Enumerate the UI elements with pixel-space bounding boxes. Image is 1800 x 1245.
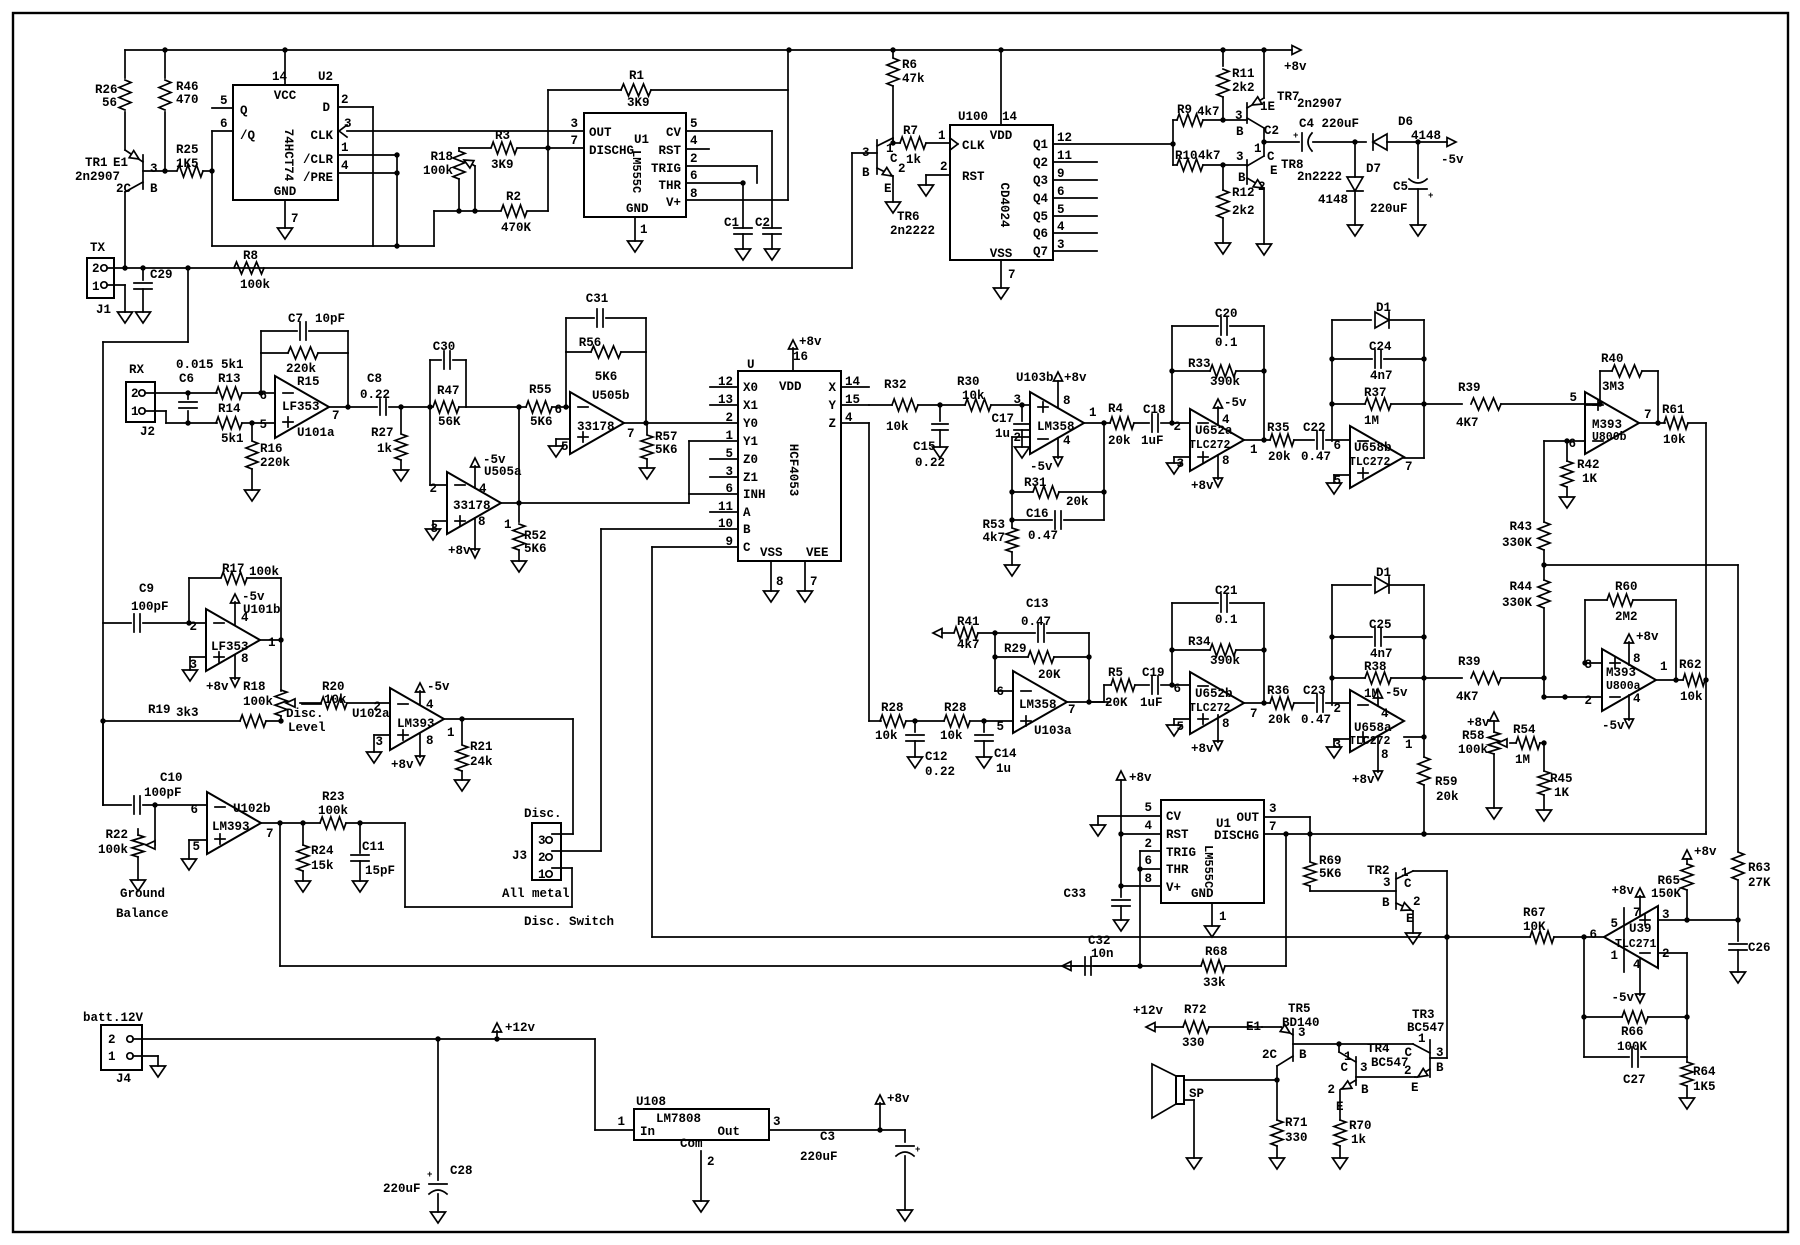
wire U658a pin3 ground — [1334, 738, 1350, 740]
svg-text:330: 330 — [1285, 1131, 1308, 1145]
svg-text:10K: 10K — [1523, 920, 1546, 934]
op-amp U505a 33178 — [447, 472, 501, 534]
op-amp U652a TLC272 — [1190, 409, 1244, 471]
svg-text:2C: 2C — [116, 182, 132, 196]
resistor R10 — [1173, 164, 1177, 166]
resistor R30 10k — [940, 404, 965, 406]
svg-text:R17: R17 — [222, 562, 245, 576]
resistor R12 — [1222, 165, 1224, 190]
wire U101b pin3 ground — [190, 656, 206, 658]
svg-text:7: 7 — [1633, 906, 1641, 920]
svg-text:7: 7 — [1068, 703, 1076, 717]
svg-text:4n7: 4n7 — [1370, 647, 1393, 661]
resistor R2 — [434, 210, 500, 212]
svg-text:7: 7 — [332, 409, 340, 423]
svg-text:5K6: 5K6 — [655, 443, 678, 457]
svg-text:R26: R26 — [95, 83, 118, 97]
IC U1 LM555C second timer — [1161, 800, 1264, 903]
svg-text:R22: R22 — [105, 828, 128, 842]
resistor R44 330K — [1543, 565, 1545, 580]
wire U102b pin5 ground — [189, 839, 207, 841]
svg-text:10k: 10k — [875, 729, 898, 743]
svg-text:Disc. Switch: Disc. Switch — [524, 915, 614, 929]
svg-text:LM358: LM358 — [1019, 698, 1057, 712]
ground C14 — [977, 757, 992, 768]
svg-text:V+: V+ — [1166, 881, 1181, 895]
svg-text:D1: D1 — [1376, 301, 1391, 315]
resistor R24 15k — [302, 823, 304, 845]
resistor R8 — [234, 262, 264, 274]
svg-text:1k: 1k — [377, 442, 393, 456]
svg-text:R42: R42 — [1577, 458, 1600, 472]
wire U1 pin1 GND — [634, 217, 636, 241]
resistor R25 — [165, 170, 176, 172]
svg-text:J3: J3 — [512, 849, 527, 863]
wire U108 Out to +8v — [769, 1129, 905, 1131]
svg-text:1K: 1K — [1582, 472, 1598, 486]
svg-text:7: 7 — [291, 212, 299, 226]
svg-text:R27: R27 — [371, 426, 394, 440]
wire R8 to TR6 base — [851, 153, 853, 268]
capacitor C26 — [1737, 920, 1739, 941]
svg-text:+12v: +12v — [1133, 1004, 1164, 1018]
svg-text:1: 1 — [92, 280, 100, 294]
svg-text:6: 6 — [725, 482, 733, 496]
svg-text:2: 2 — [1144, 837, 1152, 851]
svg-text:9: 9 — [1057, 167, 1065, 181]
svg-text:8: 8 — [478, 515, 486, 529]
svg-text:VCC: VCC — [274, 89, 297, 103]
svg-text:C: C — [1404, 1046, 1412, 1060]
svg-text:Q2: Q2 — [1033, 156, 1048, 170]
svg-text:8: 8 — [1063, 394, 1071, 408]
svg-text:Q6: Q6 — [1033, 227, 1048, 241]
svg-text:R28: R28 — [944, 701, 967, 715]
resistor R36 20k — [1270, 697, 1294, 709]
svg-text:TR5: TR5 — [1288, 1002, 1311, 1016]
IC U100 CD4024 — [950, 125, 1053, 260]
capacitor C33 — [1112, 899, 1130, 901]
svg-text:2: 2 — [1013, 431, 1021, 445]
transistor TR3 BC547 — [1429, 1040, 1431, 1077]
wire U101a in+ — [252, 422, 275, 424]
svg-text:+8v: +8v — [391, 758, 414, 772]
svg-text:3: 3 — [375, 735, 383, 749]
svg-text:1K5: 1K5 — [176, 157, 199, 171]
resistor R14 — [216, 417, 242, 429]
wire U102a output to J3 pin3 — [444, 718, 462, 720]
capacitor C22 0.47 — [1316, 431, 1318, 449]
wire U2 pin6 /Q loop to R25 and D — [212, 130, 233, 132]
svg-text:4: 4 — [426, 698, 434, 712]
resistor R68 33k — [280, 965, 1201, 967]
capacitor C16 0.47 — [1012, 519, 1052, 521]
svg-text:J2: J2 — [140, 425, 155, 439]
svg-text:R39: R39 — [1458, 381, 1481, 395]
wire TX pin2 line — [107, 267, 263, 269]
wire U800a pin2 — [1544, 696, 1602, 698]
resistor R65 150K — [1683, 850, 1692, 859]
svg-text:6: 6 — [1333, 439, 1341, 453]
capacitor C10 100pF — [102, 721, 104, 805]
wire R61 to right column — [1705, 423, 1707, 832]
wire U101a output — [329, 406, 348, 408]
svg-text:1: 1 — [725, 429, 733, 443]
capacitor C21 0.1 loop — [1171, 603, 1173, 685]
svg-text:C: C — [743, 541, 751, 555]
wire U103b output — [1084, 422, 1110, 424]
svg-text:7: 7 — [1269, 820, 1277, 834]
svg-text:100k: 100k — [249, 565, 280, 579]
wire +12v rail — [133, 1038, 595, 1040]
svg-text:11: 11 — [1057, 149, 1072, 163]
svg-text:4148: 4148 — [1411, 129, 1441, 143]
svg-text:R47: R47 — [437, 384, 460, 398]
svg-text:-5v: -5v — [1611, 991, 1634, 1005]
capacitor C20 0.1 loop — [1171, 326, 1173, 423]
capacitor C7 10pF — [260, 331, 262, 353]
svg-text:4: 4 — [1144, 819, 1152, 833]
wire U108 Com pin2 — [700, 1151, 702, 1201]
svg-text:8: 8 — [1381, 748, 1389, 762]
IC U1 LM555C timer — [584, 113, 686, 217]
svg-text:TRIG: TRIG — [651, 162, 681, 176]
svg-text:R38: R38 — [1364, 660, 1387, 674]
resistor R46 — [164, 50, 166, 78]
svg-text:-5v: -5v — [483, 453, 506, 467]
svg-text:R40: R40 — [1601, 352, 1624, 366]
svg-text:+8v: +8v — [1694, 845, 1717, 859]
svg-text:E1: E1 — [113, 156, 128, 170]
svg-text:Y1: Y1 — [743, 435, 758, 449]
op-amp U102b LM393 — [207, 792, 261, 854]
svg-text:R68: R68 — [1205, 945, 1228, 959]
svg-text:R56: R56 — [579, 336, 602, 350]
power +8v U101b pin8 — [234, 655, 236, 679]
svg-text:0.47: 0.47 — [1021, 615, 1051, 629]
wire U2 /PRE pin4 — [338, 172, 397, 174]
svg-text:C9: C9 — [139, 582, 154, 596]
svg-text:U505b: U505b — [592, 389, 630, 403]
ground R12 — [1216, 243, 1231, 254]
svg-text:47k: 47k — [902, 72, 925, 86]
connector J2 RX — [126, 382, 155, 422]
svg-text:R13: R13 — [218, 372, 241, 386]
svg-text:100k: 100k — [1458, 743, 1489, 757]
ground R53 — [1005, 565, 1020, 576]
capacitor C25 4n7 — [1332, 636, 1372, 638]
svg-text:C2: C2 — [1264, 124, 1279, 138]
svg-text:C28: C28 — [450, 1164, 473, 1178]
svg-text:3: 3 — [773, 1115, 781, 1129]
resistor R40 3M3 feedback — [1599, 371, 1601, 405]
capacitor C3 220uF polarized — [904, 1130, 906, 1142]
svg-text:+8v: +8v — [448, 544, 471, 558]
svg-text:C29: C29 — [150, 268, 173, 282]
svg-text:+: + — [1293, 131, 1298, 141]
wire U102b output row — [261, 822, 320, 824]
transistor TR7 2n2907 — [1246, 103, 1248, 123]
svg-text:2n2907: 2n2907 — [1297, 97, 1342, 111]
svg-text:15pF: 15pF — [365, 864, 395, 878]
capacitor C23 0.47 — [1316, 694, 1318, 712]
capacitor C31 — [565, 318, 567, 352]
svg-text:R19: R19 — [148, 703, 171, 717]
svg-text:U102a: U102a — [352, 707, 390, 721]
svg-text:330K: 330K — [1502, 536, 1533, 550]
svg-text:56: 56 — [102, 96, 117, 110]
svg-text:1K5: 1K5 — [1693, 1080, 1716, 1094]
power -5v U505a pin4 — [474, 466, 476, 488]
svg-text:/CLR: /CLR — [303, 153, 334, 167]
svg-text:U101a: U101a — [297, 426, 335, 440]
svg-text:20k: 20k — [1108, 434, 1131, 448]
svg-text:R58: R58 — [1462, 729, 1485, 743]
wire U505b output — [624, 422, 646, 424]
svg-text:2: 2 — [1327, 1083, 1335, 1097]
svg-text:J1: J1 — [96, 303, 111, 317]
wire 555b V+ pin8 — [1121, 885, 1161, 887]
svg-text:U1: U1 — [634, 133, 649, 147]
svg-text:R24: R24 — [311, 844, 334, 858]
svg-text:TR1: TR1 — [85, 156, 108, 170]
wire U1 DISCHG to R3/R2 node — [548, 147, 584, 149]
resistor R26 — [124, 50, 126, 78]
svg-text:100k: 100k — [423, 164, 454, 178]
svg-text:1: 1 — [1089, 406, 1097, 420]
capacitor C11 15pF — [359, 823, 361, 853]
svg-text:CV: CV — [1166, 810, 1182, 824]
capacitor C9 100pF — [103, 622, 131, 624]
svg-text:2: 2 — [940, 160, 948, 174]
capacitor C8 0.22 — [348, 406, 377, 408]
power +8v U652b pin8 — [1217, 715, 1219, 742]
svg-text:DISCHG: DISCHG — [589, 144, 634, 158]
power +8v U102a pin8 — [419, 734, 421, 757]
op-amp U39 TLC271 pointing left — [1604, 906, 1658, 968]
svg-text:C10: C10 — [160, 771, 183, 785]
svg-text:R32: R32 — [884, 378, 907, 392]
svg-text:C17: C17 — [991, 412, 1014, 426]
wire U505a output row — [501, 502, 689, 504]
resistor R4 20k — [1110, 417, 1134, 429]
resistor R16 — [251, 423, 253, 440]
svg-text:E1: E1 — [1246, 1020, 1261, 1034]
wire DISCHG down to R68 row — [1285, 834, 1287, 966]
wire -5v arrow — [1418, 141, 1447, 143]
ground J4 pin1 — [151, 1066, 166, 1077]
wire U100 CLK wedge — [950, 138, 958, 144]
svg-text:4k7: 4k7 — [957, 638, 980, 652]
svg-text:10k: 10k — [940, 729, 963, 743]
svg-text:24k: 24k — [470, 755, 493, 769]
svg-text:R46: R46 — [176, 80, 199, 94]
svg-text:Com: Com — [680, 1137, 703, 1151]
wire U100 RST pin2 — [926, 174, 950, 176]
svg-text:1uF: 1uF — [1141, 434, 1164, 448]
ground C12 — [908, 757, 923, 768]
wire U39 offset bar pins 5 1 — [1623, 908, 1625, 972]
ground speaker — [1187, 1158, 1202, 1169]
resistor R59 20k — [1423, 737, 1425, 757]
wire U800b output — [1639, 422, 1665, 424]
svg-text:R12: R12 — [1232, 186, 1255, 200]
svg-text:B: B — [743, 523, 751, 537]
svg-text:1: 1 — [1254, 142, 1262, 156]
wire DISCHG node long line — [1264, 833, 1706, 835]
svg-text:VSS: VSS — [760, 546, 783, 560]
svg-text:batt.12V: batt.12V — [83, 1011, 144, 1025]
svg-text:RX: RX — [129, 363, 145, 377]
ground 4053 VSS — [764, 591, 779, 602]
ground C1 — [736, 249, 751, 260]
transistor TR2 — [1395, 873, 1397, 909]
svg-text:R18: R18 — [430, 150, 453, 164]
svg-text:0.22: 0.22 — [360, 388, 390, 402]
power +8v rail at 555b — [1117, 771, 1126, 780]
svg-text:R31: R31 — [1024, 476, 1047, 490]
svg-text:2: 2 — [131, 387, 139, 401]
svg-text:8: 8 — [1222, 454, 1230, 468]
wire U103a output — [1066, 701, 1110, 703]
ground U100 RST — [919, 185, 934, 196]
ground C5 — [1411, 225, 1426, 236]
svg-text:C22: C22 — [1303, 421, 1326, 435]
svg-text:3: 3 — [344, 117, 352, 131]
svg-text:CLK: CLK — [310, 129, 333, 143]
svg-text:LM7808: LM7808 — [656, 1112, 701, 1126]
resistor R20 10k — [302, 703, 321, 705]
wire U39 pin2 row — [1658, 952, 1687, 954]
svg-text:CV: CV — [666, 126, 682, 140]
svg-text:C13: C13 — [1026, 597, 1049, 611]
ground R27 — [394, 470, 409, 481]
svg-text:5K6: 5K6 — [530, 415, 553, 429]
svg-text:J4: J4 — [116, 1072, 132, 1086]
svg-text:R63: R63 — [1748, 861, 1771, 875]
resistor R31 20k — [1012, 491, 1032, 493]
speaker SP — [1176, 1076, 1184, 1104]
svg-text:2n2907: 2n2907 — [75, 170, 120, 184]
capacitor C5 220uF polarized — [1417, 142, 1419, 178]
svg-text:1M: 1M — [1364, 414, 1379, 428]
svg-text:390k: 390k — [1210, 375, 1241, 389]
svg-text:U101b: U101b — [243, 603, 281, 617]
resistor R9 — [1173, 119, 1177, 121]
resistor R61 10k — [1664, 417, 1688, 429]
svg-text:TR3: TR3 — [1412, 1008, 1435, 1022]
wire U39 output pin6 — [1584, 936, 1604, 938]
svg-text:U103a: U103a — [1034, 724, 1072, 738]
svg-text:6: 6 — [554, 403, 562, 417]
svg-text:2: 2 — [725, 411, 733, 425]
resistor R57 5K6 — [646, 423, 648, 434]
svg-text:0.22: 0.22 — [925, 765, 955, 779]
transistor TR6 2n2222 — [876, 140, 878, 174]
svg-text:3: 3 — [538, 834, 546, 848]
wire U2 /CLR pin1 — [338, 154, 397, 156]
capacitor C28 220uF polarized — [437, 1039, 439, 1180]
power +8v U658a pin8 — [1377, 737, 1379, 772]
svg-text:4: 4 — [1633, 692, 1641, 706]
svg-text:A: A — [743, 506, 751, 520]
potentiometer R58 100k — [1490, 712, 1499, 721]
wire U101b output — [260, 639, 281, 641]
capacitor C27 — [1584, 1056, 1629, 1058]
svg-text:2: 2 — [189, 620, 197, 634]
svg-text:+8v: +8v — [206, 680, 229, 694]
svg-text:R25: R25 — [176, 143, 199, 157]
ground 4053 VEE — [798, 591, 813, 602]
svg-text:D7: D7 — [1366, 162, 1381, 176]
svg-text:C4 220uF: C4 220uF — [1299, 117, 1359, 131]
svg-text:R69: R69 — [1319, 854, 1342, 868]
svg-text:150K: 150K — [1651, 887, 1682, 901]
svg-text:B: B — [1236, 125, 1244, 139]
ground U652a pin3 — [1167, 463, 1182, 474]
ground R22 — [131, 880, 146, 891]
svg-text:Ground: Ground — [120, 887, 165, 901]
wire U658b output — [1404, 457, 1424, 459]
svg-text:4148: 4148 — [1318, 193, 1348, 207]
svg-text:D1: D1 — [1376, 566, 1391, 580]
svg-text:4k7: 4k7 — [982, 531, 1005, 545]
wire 4053 VSS pin8 — [770, 561, 772, 591]
svg-text:R66: R66 — [1621, 1025, 1644, 1039]
svg-text:LM393: LM393 — [212, 820, 250, 834]
svg-text:C16: C16 — [1026, 507, 1049, 521]
svg-text:+: + — [427, 1170, 432, 1180]
ground TR6 emitter — [886, 202, 901, 213]
resistor R1 — [548, 89, 621, 91]
power +8v U652a pin8 — [1217, 455, 1219, 479]
svg-text:U505a: U505a — [484, 465, 522, 479]
wire 555b TRIG THR tie — [1140, 850, 1161, 852]
svg-text:+8v: +8v — [799, 335, 822, 349]
wire CV pin5 to C2 — [686, 130, 772, 132]
svg-text:220uF: 220uF — [800, 1150, 838, 1164]
svg-text:U658b: U658b — [1354, 441, 1392, 455]
wire U101a in- — [261, 392, 275, 394]
wire 4053 Z output down to R28 row — [868, 423, 870, 721]
svg-text:2k2: 2k2 — [1232, 81, 1255, 95]
svg-text:390k: 390k — [1210, 654, 1241, 668]
svg-text:R54: R54 — [1513, 723, 1536, 737]
svg-text:7: 7 — [266, 827, 274, 841]
svg-text:C: C — [1404, 877, 1412, 891]
svg-text:E: E — [884, 182, 892, 196]
resistor R19 3k3 — [100, 718, 105, 723]
ground U505b pin5 — [549, 446, 564, 457]
ground R58 — [1487, 808, 1502, 819]
svg-text:R21: R21 — [470, 740, 493, 754]
wire 555b GND pin1 — [1211, 903, 1213, 926]
svg-text:R10: R10 — [1175, 149, 1198, 163]
svg-text:100k: 100k — [243, 695, 274, 709]
svg-text:5k1: 5k1 — [221, 358, 244, 372]
wire speaker to TR5 collector — [1184, 1079, 1277, 1081]
svg-text:2: 2 — [690, 152, 698, 166]
wire U652b pin5 ground — [1174, 718, 1190, 720]
svg-text:7: 7 — [810, 575, 818, 589]
svg-text:1: 1 — [1250, 443, 1258, 457]
wire TRIG pin2 — [686, 165, 757, 167]
svg-text:TR6: TR6 — [897, 210, 920, 224]
svg-text:1: 1 — [268, 636, 276, 650]
svg-text:VDD: VDD — [990, 129, 1013, 143]
svg-text:0.1: 0.1 — [1215, 336, 1238, 350]
svg-text:Disc.: Disc. — [286, 707, 324, 721]
